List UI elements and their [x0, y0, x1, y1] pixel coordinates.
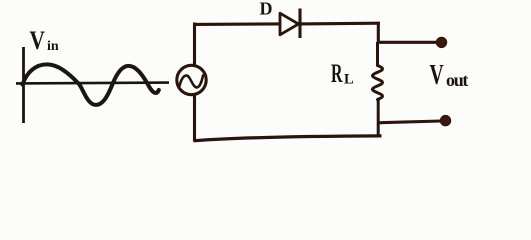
ac source circle [177, 65, 206, 94]
diode D cathode bar [298, 9, 301, 39]
top output terminal [436, 37, 446, 47]
svg-text:V: V [30, 27, 45, 55]
wire top left segment [193, 22, 280, 26]
label Vout [430, 59, 469, 90]
wire top right segment [300, 22, 380, 26]
resistor RL top lead [376, 42, 379, 67]
ac source sine symbol [180, 76, 204, 88]
resistor RL body [372, 66, 382, 100]
diode D triangle [280, 13, 299, 35]
bottom output terminal [440, 115, 450, 125]
resistor RL bottom lead [377, 99, 380, 137]
svg-text:V: V [430, 59, 445, 90]
wire source top lead [193, 23, 196, 67]
wire to bottom output terminal [378, 121, 442, 123]
input graph horizontal axis [16, 81, 169, 84]
input graph vertical axis [22, 47, 25, 123]
svg-text:L: L [344, 72, 354, 88]
wire left bottom lead [193, 94, 196, 142]
wire to top output terminal [377, 41, 437, 44]
wire bottom segment [194, 136, 382, 141]
label RL [331, 59, 354, 88]
label Vin [30, 27, 59, 55]
svg-text:D: D [260, 0, 273, 19]
svg-text:R: R [331, 59, 343, 88]
svg-text:in: in [47, 39, 59, 54]
input sine waveform [23, 64, 159, 105]
svg-text:out: out [446, 70, 468, 90]
wire right corner drop [377, 23, 380, 44]
